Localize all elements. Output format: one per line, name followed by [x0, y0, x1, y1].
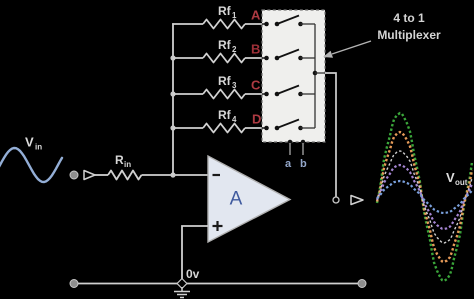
- wire node to Rin: [95, 174, 108, 176]
- switch SW-A: [262, 16, 315, 27]
- wire Rf1 to mux: [245, 23, 263, 25]
- node C dot on bus: [170, 91, 175, 96]
- select pin a: [288, 140, 293, 145]
- svg-text:1: 1: [232, 11, 237, 20]
- wire row D: [173, 127, 203, 129]
- label Rf4: [218, 108, 237, 124]
- svg-text:Rf: Rf: [218, 108, 232, 122]
- svg-text:B: B: [251, 42, 260, 57]
- resistor Rf4: [203, 124, 245, 133]
- output arrow: [351, 196, 363, 205]
- select pin b: [301, 140, 306, 145]
- output wave purple: [377, 165, 472, 229]
- wire mux output bus: [314, 24, 316, 128]
- input arrow: [84, 171, 95, 180]
- svg-text:in: in: [35, 143, 42, 152]
- wire Rf4 to mux: [245, 127, 263, 129]
- wire row B: [173, 57, 203, 59]
- node D dot on bus: [170, 125, 175, 130]
- svg-text:R: R: [115, 153, 124, 167]
- wire Rin to op-amp: [142, 174, 209, 176]
- label Vin: [25, 135, 42, 152]
- wire 0v rail: [74, 283, 362, 285]
- multiplexer box: [262, 10, 325, 142]
- label Rin: [115, 153, 131, 169]
- svg-text:Multiplexer: Multiplexer: [377, 28, 441, 42]
- output wave gray: [377, 151, 472, 243]
- resistor Rf1: [203, 20, 245, 29]
- resistor Rin: [108, 171, 142, 180]
- svg-text:Rf: Rf: [218, 38, 232, 52]
- node mux output junction: [313, 71, 318, 76]
- wire plus input to ground: [182, 226, 208, 284]
- node feedback junction: [170, 172, 175, 177]
- node rail left: [70, 280, 78, 288]
- svg-text:0v: 0v: [186, 267, 200, 281]
- svg-text:Rf: Rf: [218, 4, 232, 18]
- node B dot on bus: [170, 55, 175, 60]
- svg-text:out: out: [455, 178, 468, 187]
- wire mux tap outside: [325, 73, 336, 197]
- svg-text:V: V: [446, 170, 455, 185]
- output wave green: [377, 113, 472, 281]
- wire feedback bus vertical: [172, 23, 174, 175]
- resistor Rf2: [203, 54, 245, 63]
- svg-text:a: a: [285, 158, 292, 170]
- wire Rf3 to mux: [245, 93, 263, 95]
- output wave blue: [377, 181, 472, 213]
- wire row C: [173, 93, 203, 95]
- pointer arrow to mux: [323, 41, 371, 58]
- switch SW-D: [262, 120, 315, 131]
- svg-text:C: C: [251, 78, 261, 93]
- op-amp plus sign: [213, 221, 223, 231]
- svg-text:2: 2: [232, 45, 237, 54]
- switch SW-C: [262, 86, 315, 97]
- svg-text:V: V: [25, 135, 34, 150]
- node output: [333, 197, 339, 203]
- svg-text:3: 3: [232, 81, 237, 90]
- node rail right: [358, 280, 366, 288]
- node ground diamond: [177, 279, 187, 289]
- label 4 to 1 Multiplexer: [377, 11, 441, 42]
- svg-text:4: 4: [232, 115, 237, 124]
- label Rf1: [218, 4, 237, 20]
- svg-text:Rf: Rf: [218, 74, 232, 88]
- ground: [174, 287, 190, 298]
- svg-text:D: D: [252, 112, 261, 127]
- op-amp minus sign: [213, 174, 221, 176]
- node input source: [70, 171, 78, 179]
- input sine wave Vin: [0, 148, 62, 182]
- resistor Rf3: [203, 90, 245, 99]
- wire row A: [172, 23, 203, 25]
- label Rf2: [218, 38, 237, 54]
- label Rf3: [218, 74, 237, 90]
- label Vout: [446, 170, 468, 187]
- switch SW-B: [262, 50, 315, 61]
- op-amp A: [208, 156, 290, 242]
- svg-text:b: b: [300, 158, 307, 170]
- svg-text:in: in: [124, 160, 131, 169]
- wire mux tap inside: [315, 72, 325, 74]
- wire Rf2 to mux: [245, 57, 263, 59]
- svg-text:4 to 1: 4 to 1: [393, 11, 425, 25]
- svg-text:A: A: [251, 8, 261, 23]
- svg-text:A: A: [230, 189, 243, 210]
- output wave orange: [377, 132, 472, 262]
